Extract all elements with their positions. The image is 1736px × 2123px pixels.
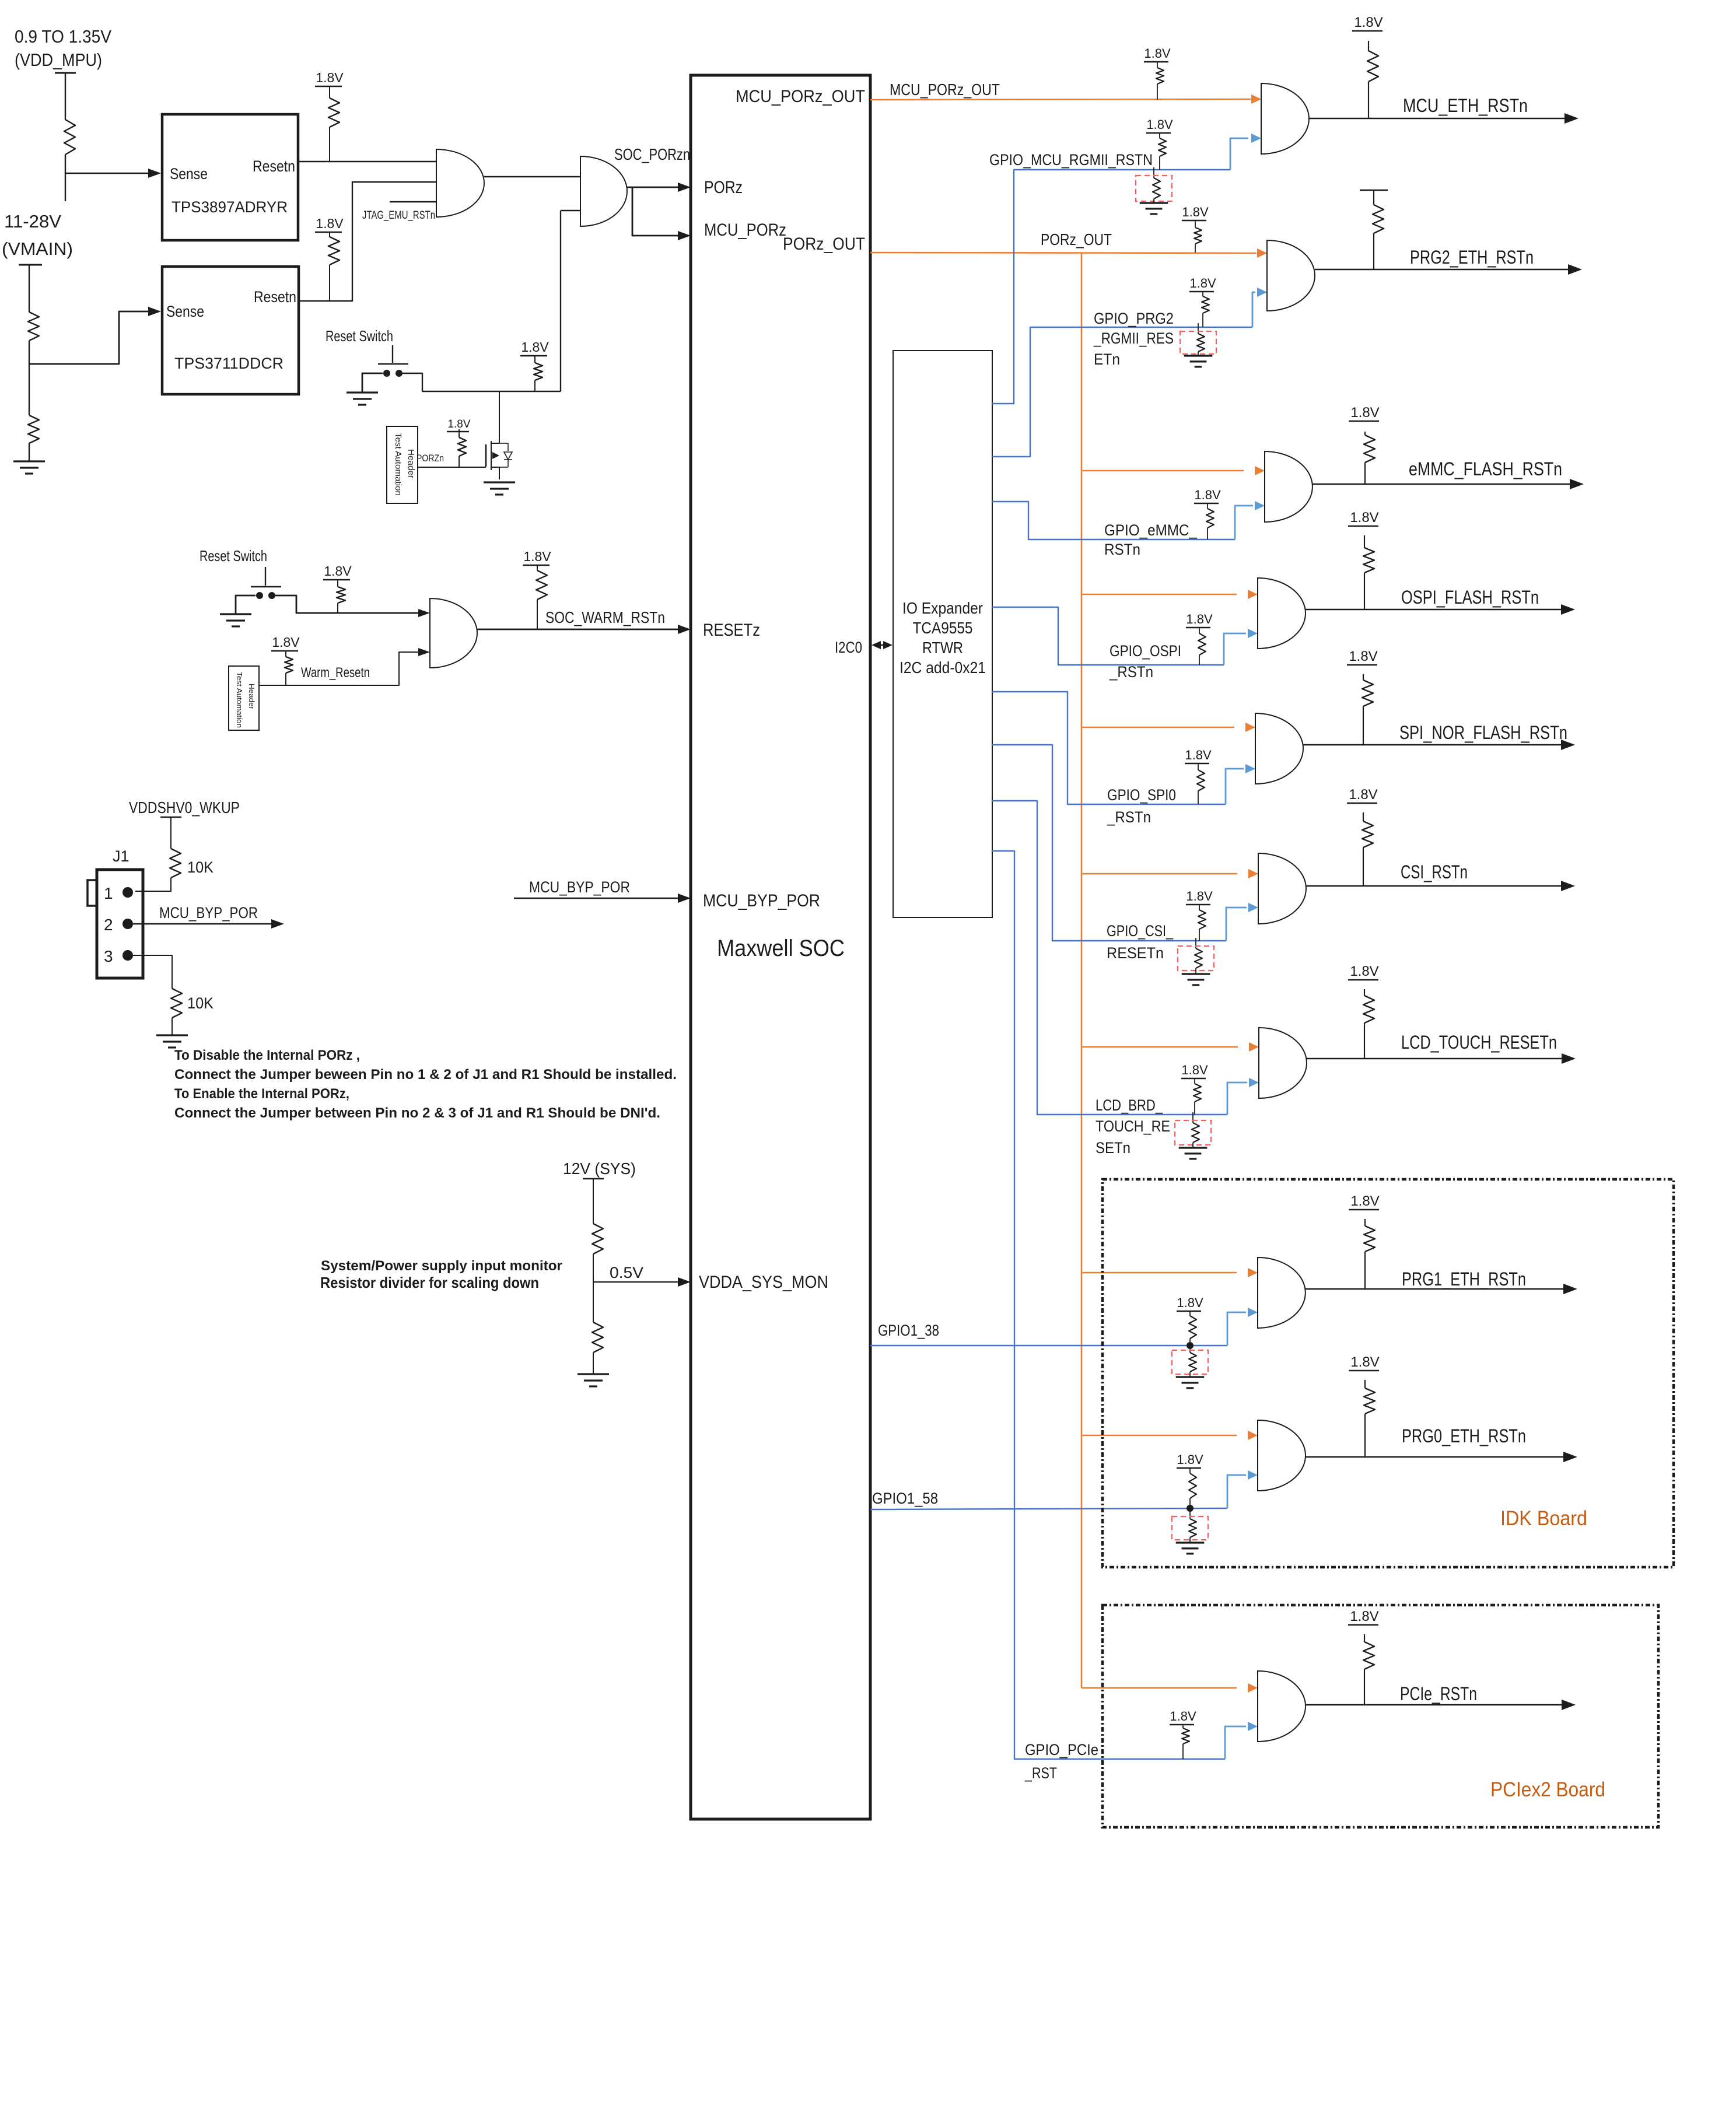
wire resistor to MCU_RGMII net (1159, 156, 1160, 170)
svg-text:OSPI_FLASH_RSTn: OSPI_FLASH_RSTn (1401, 587, 1539, 608)
DNI box MCU_RGMII (1136, 176, 1172, 201)
power 1.8V rail (GPIO1_38 pullup) (1177, 1295, 1203, 1311)
wire orange branch to PRG1 gate (1081, 1272, 1237, 1274)
svg-text:GPIO1_58: GPIO1_58 (872, 1490, 938, 1507)
arrow PORz into SOC (678, 183, 691, 192)
power 1.8V rail (MCU_RGMII pullup) (1146, 117, 1173, 133)
wire U5 output SOC_WARM_RSTn (477, 629, 679, 630)
net label PRG1_ETH_RSTn (1402, 1269, 1526, 1290)
svg-text:JTAG_EMU_RSTn: JTAG_EMU_RSTn (362, 209, 435, 222)
wire orange MCU_PORz_OUT (870, 99, 1251, 100)
power 1.8V rail (SPI0 pullup) (1185, 748, 1212, 763)
net label eMMC_FLASH_RSTn (1409, 458, 1562, 479)
wire 1.8V to resistor (warm out) (537, 565, 538, 570)
power 1.8V rail (MCU_PORz_OUT pullup) (1144, 46, 1171, 62)
SOC pin label MCU_PORz_OUT (736, 87, 865, 106)
resistor 12V divider lower (592, 1322, 603, 1353)
net label GPIO_CSI line1 (1107, 922, 1174, 940)
svg-text:Reset Switch: Reset Switch (325, 327, 393, 345)
ground DNI GPIO1_58 (1176, 1543, 1205, 1554)
net label MCU_BYP_POR (SOC) (529, 878, 630, 896)
resistor pullup eMMC (1206, 509, 1214, 528)
arrow output PCIe_RSTn (1562, 1700, 1576, 1710)
AND gate (CSI_RSTn) (1258, 853, 1306, 924)
junction dot GPIO1_58 (1186, 1505, 1193, 1512)
svg-text:Reset Switch: Reset Switch (199, 547, 267, 565)
DNI box GPIO1_38 (1172, 1350, 1208, 1374)
svg-text:PRG1_ETH_RSTn: PRG1_ETH_RSTn (1402, 1269, 1526, 1290)
wire blue GPIO_CSI_RESETn (992, 745, 1226, 941)
wire blue elbow CSI to gate (1226, 908, 1247, 941)
svg-text:MCU_ETH_RSTn: MCU_ETH_RSTn (1403, 95, 1528, 116)
resistor VDD_MPU divider upper (64, 120, 75, 155)
wire output eMMC_FLASH_RSTn (1312, 484, 1574, 485)
svg-text:System/Power supply input moni: System/Power supply input monitor (321, 1258, 562, 1274)
power rail 12V bar (583, 1178, 604, 1180)
wire 1.8V to resistor (CSI) (1199, 905, 1200, 910)
svg-text:1.8V: 1.8V (1177, 1295, 1203, 1310)
svg-text:GPIO_PRG2: GPIO_PRG2 (1094, 310, 1174, 327)
arrow orange into SPI_NOR gate (1245, 723, 1255, 732)
svg-text:I2C0: I2C0 (835, 639, 862, 656)
wire switch1 left to ground (362, 373, 383, 392)
resistor 12V divider upper (592, 1224, 603, 1254)
svg-text:1.8V: 1.8V (1350, 510, 1378, 526)
svg-text:1.8V: 1.8V (1189, 276, 1216, 290)
power 1.8V rail (eMMC pullup) (1194, 488, 1221, 503)
arrow RESETz into SOC (678, 625, 691, 634)
U6 label IO Expander (902, 599, 983, 617)
net label MCU_BYP_POR (J1) (159, 904, 258, 922)
wire rail to resistor (eMMC_FLASH_RSTn) (1364, 432, 1366, 435)
arrow blue into gate PRG1 (1248, 1308, 1258, 1317)
svg-text:1.8V: 1.8V (447, 418, 470, 430)
net label GPIO_PCIe line1 (1025, 1741, 1098, 1758)
IO expander U6 TCA9555 box (893, 351, 992, 917)
resistor DNI LCD (1192, 1123, 1199, 1143)
svg-text:TPS3897ADRYR: TPS3897ADRYR (171, 198, 288, 216)
wire blue elbow PRG2 to gate (1252, 292, 1255, 327)
svg-text:RTWR: RTWR (922, 639, 963, 657)
net label SOC_WARM_RSTn (545, 608, 665, 626)
net label MCU_ETH_RSTn (1403, 95, 1528, 116)
wire resistor to output (LCD_TOUCH_RESETn) (1364, 1023, 1365, 1059)
resistor DNI CSI (1195, 948, 1202, 968)
arrow orange into gate PRG2_ETH (1257, 248, 1267, 258)
U6 label I2C addr (900, 658, 986, 677)
svg-text:PCIe_RSTn: PCIe_RSTn (1400, 1683, 1477, 1704)
arrow orange into OSPI gate (1248, 590, 1258, 599)
net label LCD_TOUCH_RESETn (1401, 1032, 1557, 1053)
wire resistor to output (PRG0_ETH_RSTn) (1364, 1414, 1366, 1457)
svg-text:1.8V: 1.8V (1349, 649, 1377, 664)
arrow output PRG0_ETH_RSTn (1563, 1452, 1577, 1462)
power rail VDD_MPU bar (55, 72, 76, 74)
AND gate (eMMC_FLASH_RSTn) (1265, 451, 1312, 522)
svg-text:1.8V: 1.8V (1146, 117, 1173, 132)
U2 pin label Sense (166, 303, 204, 320)
wire DNI to ground (CSI) (1195, 968, 1196, 974)
resistor DNI MCU_RGMII (1153, 178, 1160, 199)
wire rail to resistor (PRG1_ETH_RSTn) (1364, 1219, 1366, 1226)
resistor pullup U2 Resetn (328, 237, 339, 265)
wire VDD_MPU down to divider (65, 73, 66, 120)
wire blue elbow eMMC to gate (1235, 506, 1253, 539)
wire resistor to PORz_OUT net (1195, 244, 1196, 253)
net label SPI_NOR_FLASH_RSTn (1399, 722, 1567, 743)
svg-text:1.8V: 1.8V (1349, 787, 1377, 803)
wire VMAIN sense tap (29, 311, 148, 364)
power 1.8V pullup rail (U1 Resetn) (315, 70, 344, 86)
wire orange branch to PCIe gate (1081, 1687, 1237, 1689)
svg-text:1.8V: 1.8V (1144, 46, 1171, 61)
svg-text:GPIO1_38: GPIO1_38 (878, 1322, 939, 1339)
wire divider to tap end (65, 155, 66, 201)
net label MCU_PORz_OUT (wire) (890, 80, 1000, 99)
arrow orange into gate MCU_ETH (1251, 94, 1261, 104)
wire blue GPIO_eMMC_RSTn (992, 502, 1235, 539)
arrow orange into PCIe gate (1248, 1683, 1258, 1693)
net label PRG2_ETH_RSTn (1410, 247, 1534, 268)
wire 1.8V to resistor (U1 Resetn) (329, 86, 330, 98)
svg-text:PORz: PORz (704, 178, 743, 197)
test automation header 2 text (235, 672, 256, 728)
resistor DNI PRG2 (1197, 334, 1205, 352)
wire orange branch to PRG0 gate (1081, 1435, 1237, 1437)
svg-text:GPIO_PCIe: GPIO_PCIe (1025, 1741, 1098, 1758)
wire resistor to output (eMMC_FLASH_RSTn) (1364, 463, 1366, 484)
resistor pullup eMMC_FLASH_RSTn output (1364, 435, 1375, 463)
SOC name label Maxwell SOC (717, 936, 845, 961)
wire output LCD_TOUCH_RESETn (1307, 1058, 1566, 1059)
wire output PRG1_ETH_RSTn (1305, 1288, 1568, 1290)
svg-text:2: 2 (104, 916, 113, 934)
power rail VMAIN bar (19, 264, 42, 266)
wire 10K to ground (171, 1018, 173, 1035)
svg-text:1.8V: 1.8V (523, 549, 551, 564)
svg-text:TOUCH_RE: TOUCH_RE (1095, 1117, 1170, 1135)
wire rail to resistor (MCU_ETH_RSTn) (1368, 41, 1369, 51)
wire 1.8V to resistor (PORzn) (534, 356, 535, 363)
wire 1.8V to resistor (PCIe) (1182, 1725, 1184, 1728)
resistor pullup warm A (337, 587, 345, 603)
svg-text:GPIO_MCU_RGMII_RSTN: GPIO_MCU_RGMII_RSTN (989, 151, 1153, 169)
wire VDDSHV0 down (170, 817, 171, 849)
net label Warm_Resetn (301, 665, 370, 681)
ground 12V divider (577, 1374, 609, 1386)
svg-text:Resetn: Resetn (253, 157, 295, 175)
svg-text:VDDA_SYS_MON: VDDA_SYS_MON (699, 1273, 828, 1292)
wire U4 output to PORz pin (627, 187, 679, 188)
wire rail to resistor (LCD_TOUCH_RESETn) (1364, 989, 1365, 996)
AND gate (LCD_TOUCH_RESETn) (1259, 1028, 1307, 1098)
net label JTAG_EMU_RSTn (362, 209, 435, 222)
svg-text:1.8V: 1.8V (272, 635, 300, 650)
wire resistor to OSPI net (1199, 655, 1200, 665)
wire resistor to output (SPI_NOR_FLASH_RSTn) (1363, 706, 1364, 745)
arrow into U1 Sense (148, 169, 161, 178)
arrow VDDA_SYS_MON into SOC (678, 1277, 691, 1287)
wire output PCIe_RSTn (1305, 1704, 1566, 1705)
wire 1.8V to resistor (Warm_Resetn) (285, 651, 286, 657)
U2 pin label Resetn (254, 288, 296, 306)
wire 1.8V to resistor (GPIO1_58) (1189, 1468, 1191, 1473)
svg-text:_RSTn: _RSTn (1107, 808, 1151, 826)
wire net to DNI resistor (LCD) (1192, 1112, 1193, 1123)
arrow MCU_BYP_POR out (271, 919, 284, 929)
svg-text:MCU_PORz_OUT: MCU_PORz_OUT (890, 80, 1000, 99)
wire net to DNI resistor (GPIO1_58) (1189, 1508, 1191, 1519)
wire 1.8V to resistor (PORz_OUT) (1195, 220, 1196, 227)
svg-text:RESETz: RESETz (703, 621, 760, 640)
svg-text:3: 3 (104, 947, 113, 965)
svg-text:1.8V: 1.8V (1181, 1063, 1208, 1077)
resistor VMAIN divider upper (28, 312, 39, 341)
AND gate (SPI_NOR_FLASH_RSTn) (1255, 713, 1303, 784)
wire output SPI_NOR_FLASH_RSTn (1303, 744, 1566, 745)
test automation header 1 text (393, 433, 416, 496)
svg-text:1.8V: 1.8V (1186, 889, 1213, 903)
wire resistor to output (PRG1_ETH_RSTn) (1364, 1252, 1366, 1289)
wire orange branch to SPI_NOR gate (1081, 727, 1234, 728)
svg-text:1: 1 (104, 884, 113, 902)
wire blue elbow PCIe to gate (1225, 1726, 1246, 1759)
wire resistor to CSI net (1199, 929, 1200, 941)
resistor DNI GPIO1_38 (1189, 1353, 1196, 1372)
wire resistor to SPI0 net (1198, 791, 1199, 804)
net label GPIO_PRG2 line2 (1093, 330, 1174, 347)
wire DNI to ground (GPIO1_58) (1189, 1537, 1191, 1543)
wire VDD_MPU sense tap (65, 173, 149, 174)
svg-text:PORz_OUT: PORz_OUT (783, 234, 865, 254)
transistor Q1 NMOS (486, 432, 512, 479)
resistor pullup PORzn (534, 363, 542, 380)
resistor pullup LCD_TOUCH_RESETn output (1363, 996, 1374, 1023)
value label 10K upper (187, 859, 213, 876)
wire 1.8V to resistor (GPIO1_38) (1189, 1311, 1191, 1316)
power 1.8V pullup rail (warm A) (323, 563, 352, 580)
wire resistor to SOC_WARM_RSTn (537, 600, 538, 629)
svg-text:1.8V: 1.8V (1186, 612, 1213, 626)
wire divider to ground (593, 1353, 594, 1374)
reset switch 2 symbol (251, 567, 281, 599)
PCIex2 Board box (1102, 1605, 1658, 1827)
net label GPIO_SPI0 line2 (1107, 808, 1151, 826)
svg-text:Resistor divider for scaling d: Resistor divider for scaling down (320, 1274, 539, 1291)
power 1.8V rail (OSPI_FLASH_RSTn pullup) (1348, 510, 1379, 526)
svg-text:1.8V: 1.8V (1194, 488, 1221, 502)
IDK Board box (1102, 1179, 1674, 1567)
wire resistor to PORzn net (534, 380, 535, 391)
svg-text:(VMAIN): (VMAIN) (2, 239, 73, 259)
svg-text:Connect the Jumper beween Pin: Connect the Jumper beween Pin no 1 & 2 o… (174, 1067, 677, 1082)
svg-text:12V (SYS): 12V (SYS) (563, 1159, 636, 1178)
svg-text:PORz_OUT: PORz_OUT (1041, 230, 1112, 248)
power 1.8V rail (LCD pullup) (1181, 1063, 1208, 1078)
power 1.8V rail (PORz_OUT pullup) (1182, 205, 1209, 220)
svg-text:Resetn: Resetn (254, 288, 296, 306)
reset switch 1 symbol (378, 345, 408, 377)
wire 1.8V to resistor (warm A) (337, 580, 338, 587)
resistor pullup CSI (1198, 910, 1206, 929)
resistor R 10K lower (171, 989, 182, 1018)
wire Warm_Resetn to gate B (259, 652, 418, 685)
wire 12V down (593, 1179, 594, 1224)
DNI box PRG2 (1180, 331, 1216, 354)
resistor VMAIN divider lower (28, 415, 39, 443)
svg-text:RSTn: RSTn (1104, 541, 1140, 558)
net label PORz_OUT (wire) (1041, 230, 1112, 248)
svg-text:10K: 10K (187, 859, 213, 876)
wire switch2 left to ground (236, 595, 256, 614)
power rail 12V (SYS) label (563, 1159, 636, 1178)
wire 1.8V to resistor (SPI0) (1198, 763, 1199, 770)
wire resistor to GPIO1_58 net (1189, 1498, 1191, 1508)
wire VMAIN divider middle (29, 341, 30, 415)
arrow output CSI_RSTn (1561, 881, 1575, 891)
power 1.8V pullup rail (U2 Resetn) (315, 216, 344, 232)
power 1.8V pullup rail (Warm_Resetn) (271, 635, 300, 651)
AND gate (PCIe_RSTn) (1258, 1671, 1305, 1742)
wire resistor to output (PRG2_ETH_RSTn) (1373, 233, 1374, 269)
wire net to DNI resistor (PRG2) (1198, 323, 1199, 334)
test automation header 1 box (387, 426, 418, 503)
arrow into warm gate B (418, 648, 430, 656)
svg-text:Test Automation: Test Automation (235, 672, 244, 728)
wire resistor to warm A net (337, 603, 338, 613)
svg-text:Header: Header (406, 449, 416, 478)
svg-text:1.8V: 1.8V (316, 216, 344, 231)
wire DNI to ground (LCD) (1192, 1143, 1193, 1148)
svg-text:GPIO_SPI0: GPIO_SPI0 (1107, 786, 1176, 804)
wire 1.8V to resistor (PRG2) (1202, 292, 1203, 296)
wire orange branch to eMMC gate (1081, 470, 1244, 472)
svg-text:TPS3711DDCR: TPS3711DDCR (174, 355, 283, 372)
wire PORZn header to FET gate (418, 467, 486, 468)
wire blue elbow GPIO1_38 to gate (1227, 1312, 1246, 1346)
SOC pin label PORz (704, 178, 743, 197)
svg-text:IO Expander: IO Expander (902, 599, 983, 617)
wire blue GPIO1_58 (870, 1508, 1227, 1509)
power rail VMAIN label (2, 211, 73, 259)
svg-text:MCU_PORz: MCU_PORz (704, 220, 786, 240)
AND gate U5 (SOC_WARM_RSTn) (430, 598, 477, 668)
IDK Board label (1500, 1507, 1587, 1530)
arrow output OSPI_FLASH_RSTn (1561, 604, 1575, 615)
svg-text:1.8V: 1.8V (1350, 1609, 1378, 1624)
svg-text:1.8V: 1.8V (324, 563, 352, 579)
arrow blue into gate CSI (1248, 903, 1258, 912)
wire 1.8V to resistor (PORZn) (459, 429, 460, 437)
svg-text:eMMC_FLASH_RSTn: eMMC_FLASH_RSTn (1409, 458, 1562, 479)
svg-text:Header: Header (247, 684, 256, 710)
wire U4 output fork to MCU_PORz (632, 187, 679, 236)
svg-text:TCA9555: TCA9555 (913, 619, 973, 637)
ground DNI PRG2 (1184, 356, 1213, 367)
net label GPIO_PCIe line2 (1024, 1764, 1057, 1782)
resistor pullup Warm_Resetn (285, 657, 293, 673)
svg-text:VDDSHV0_WKUP: VDDSHV0_WKUP (129, 798, 240, 817)
net label SOC_PORzn (614, 145, 690, 163)
resistor pullup SOC_WARM_RSTn (536, 570, 547, 600)
wire MCU_BYP_POR to SOC (514, 898, 679, 899)
net label GPIO_SPI0 line1 (1107, 786, 1176, 804)
U1 part label TPS3897ADRYR (171, 198, 288, 216)
wire VMAIN down (29, 265, 30, 312)
power 1.8V rail (CSI pullup) (1186, 889, 1213, 905)
svg-text:I2C add-0x21: I2C add-0x21 (900, 658, 986, 677)
power 1.8V rail (CSI_RSTn pullup) (1347, 787, 1378, 803)
svg-text:Warm_Resetn: Warm_Resetn (301, 665, 370, 681)
svg-text:GPIO_OSPI: GPIO_OSPI (1109, 642, 1181, 660)
resistor pullup SPI0 (1197, 770, 1205, 791)
connector J1 body (87, 870, 143, 978)
SOC pin label GPIO1_58 (872, 1490, 938, 1507)
wire blue elbow MCU_RGMII to gate (1230, 138, 1248, 170)
DNI box GPIO1_58 (1172, 1516, 1208, 1540)
svg-text:11-28V: 11-28V (4, 211, 61, 232)
power T-bar (PRG2_ETH_RSTn pullup) (1360, 190, 1388, 191)
SOC pin label PORz_OUT (783, 234, 865, 254)
ground J1 pulldown (156, 1035, 188, 1048)
svg-text:1.8V: 1.8V (1170, 1709, 1196, 1723)
arrow blue into gate eMMC (1255, 501, 1265, 510)
svg-text:1.8V: 1.8V (316, 70, 344, 85)
ground reset switch 2 (220, 614, 251, 626)
resistor DNI GPIO1_58 (1189, 1519, 1196, 1537)
AND gate (PRG1_ETH_RSTn) (1258, 1257, 1305, 1328)
arrow blue into gate OSPI (1248, 629, 1258, 638)
wire 1.8V to resistor (eMMC) (1207, 503, 1208, 509)
svg-text:10K: 10K (187, 994, 213, 1012)
net label GPIO_OSPI line1 (1109, 642, 1181, 660)
connector J1 label (113, 847, 129, 865)
svg-text:_RST: _RST (1024, 1764, 1057, 1782)
DNI box CSI (1178, 946, 1214, 971)
net label OSPI_FLASH_RSTn (1401, 587, 1539, 608)
power 1.8V rail (PRG1_ETH_RSTn pullup) (1349, 1193, 1380, 1210)
ground DNI MCU_RGMII (1140, 203, 1168, 214)
supervisor U1 TPS3897ADRYR box (162, 114, 298, 240)
svg-text:Maxwell SOC: Maxwell SOC (717, 936, 845, 961)
resistor pullup PORZn (458, 437, 466, 456)
svg-text:PORZn: PORZn (416, 453, 444, 464)
net label GPIO_eMMC line2 (1104, 541, 1140, 558)
resistor pullup U1 Resetn (328, 98, 339, 127)
U6 label TCA9555 (913, 619, 973, 637)
resistor pullup MCU_PORz_OUT (1156, 68, 1164, 84)
svg-text:Sense: Sense (166, 303, 204, 320)
AND gate U3 (POR combiner) (436, 149, 484, 217)
net label GPIO_PRG2 line1 (1094, 310, 1174, 327)
wire rail to resistor (CSI_RSTn) (1363, 812, 1364, 821)
wire resistor to LCD net (1194, 1102, 1195, 1115)
ground DNI GPIO1_38 (1176, 1377, 1205, 1388)
resistor R 10K upper (170, 849, 181, 878)
wire resistor to U2 Resetn net (329, 265, 330, 301)
power 1.8V pullup rail (SOC_WARM_RSTn) (523, 549, 551, 565)
resistor pullup CSI_RSTn output (1362, 821, 1373, 847)
net label LCD_BRD line2 (1095, 1117, 1170, 1135)
wire orange branch to OSPI gate (1081, 594, 1237, 595)
wire PORzn net to U4 input (561, 211, 580, 391)
reset switch 1 label (325, 327, 393, 345)
U2 part label TPS3711DDCR (174, 355, 283, 372)
wire output MCU_ETH_RSTn (1309, 118, 1569, 119)
resistor pullup PRG2_ETH_RSTn output (1373, 205, 1384, 233)
arrow output eMMC_FLASH_RSTn (1570, 479, 1584, 489)
svg-text:ETn: ETn (1094, 351, 1120, 368)
